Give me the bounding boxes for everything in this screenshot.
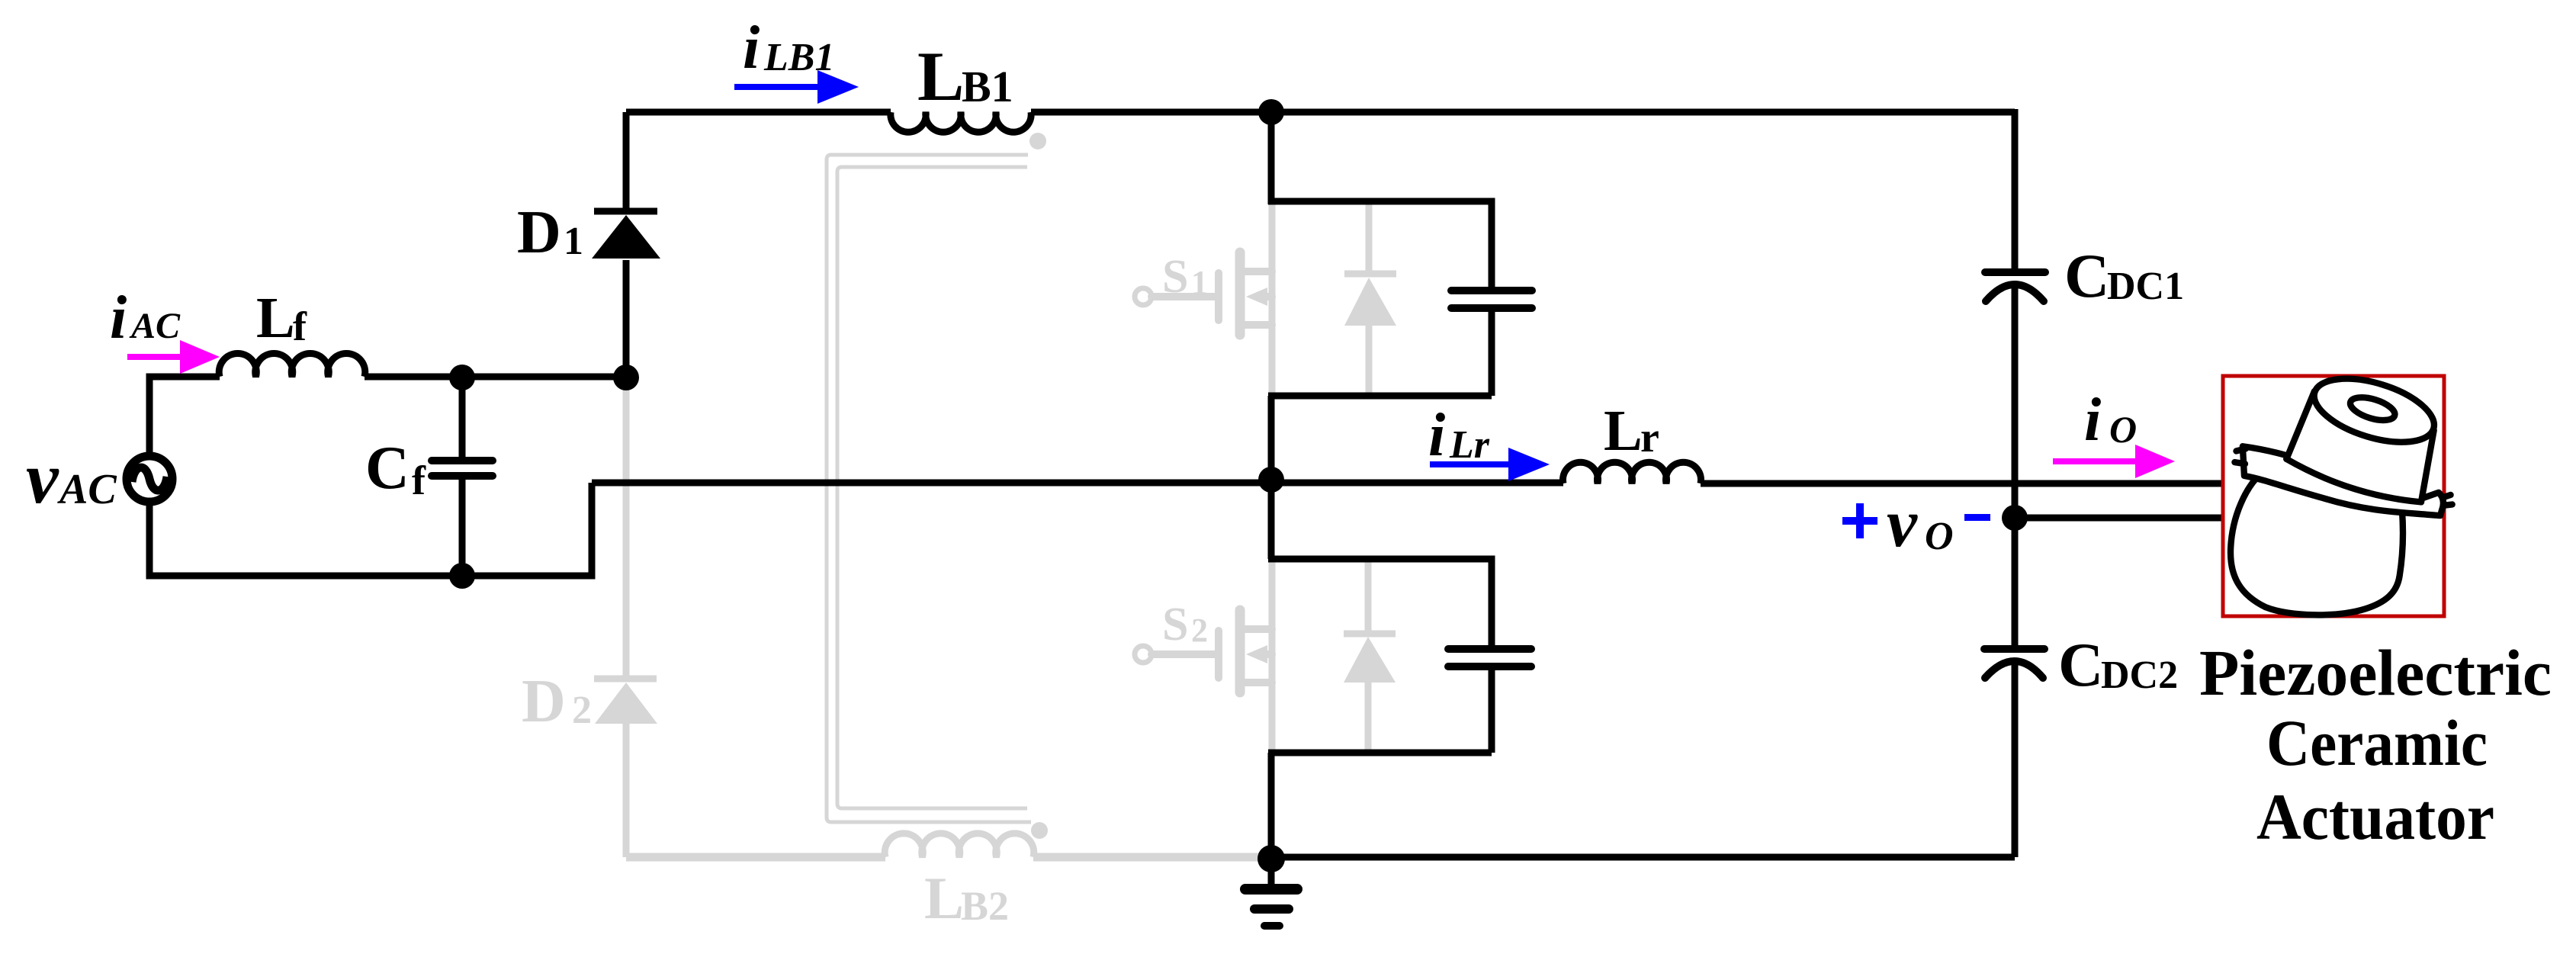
node junction dot Cf top (449, 365, 475, 390)
capacitor CDC2 (1984, 649, 2044, 678)
svg-text:L: L (917, 37, 964, 115)
svg-text:i: i (743, 14, 760, 82)
label Piezoelectric Ceramic Actuator (2199, 636, 2552, 853)
wire coupled-winding link inner (837, 167, 1027, 808)
body diode of S2 (gray) (1344, 562, 1396, 750)
wire input bottom (vAC to mid rail step) (149, 483, 592, 576)
label S2 (1162, 599, 1208, 650)
svg-text:v: v (1887, 486, 1918, 561)
label LB2 (924, 865, 1009, 931)
svg-text:i: i (2084, 387, 2101, 454)
svg-text:Ceramic: Ceramic (2266, 706, 2488, 779)
inductor LB1 (891, 112, 1031, 132)
half-bridge cell 1 outline (1268, 201, 1492, 396)
label D2 (522, 668, 592, 735)
svg-text:S: S (1162, 599, 1188, 650)
wire coupled-winding link outer (827, 155, 1031, 822)
label iLB1 (743, 14, 834, 82)
svg-text:O: O (2109, 408, 2137, 451)
label vAC (26, 437, 117, 519)
current arrow iO (magenta) (2053, 445, 2175, 478)
wire leg upper (1268, 112, 1275, 204)
label LB1 (917, 37, 1013, 115)
label Lf (256, 286, 307, 350)
wire output return to actuator (2015, 515, 2223, 522)
node junction dot ground (1257, 845, 1285, 872)
svg-text:B2: B2 (961, 883, 1009, 929)
wire right rail lower (2012, 660, 2019, 857)
current arrow iLB1 (blue) (734, 70, 859, 104)
svg-text:L: L (924, 865, 964, 931)
wire leg middle (1268, 396, 1275, 559)
svg-text:1: 1 (564, 220, 583, 263)
diode D2 (inactive, gray) (594, 377, 657, 857)
svg-text:v: v (26, 437, 59, 519)
label iO (2084, 387, 2137, 454)
piezoelectric actuator drawing (2231, 366, 2452, 615)
svg-text:f: f (412, 458, 426, 503)
svg-text:AC: AC (129, 306, 181, 346)
svg-text:C: C (2064, 241, 2109, 310)
label D1 (517, 199, 583, 266)
svg-text:i: i (110, 284, 127, 352)
svg-text:Lr: Lr (1449, 423, 1490, 467)
label iLr (1428, 402, 1490, 469)
svg-text:r: r (1640, 414, 1659, 461)
current arrow iLr (blue) (1430, 448, 1550, 481)
svg-text:i: i (1428, 402, 1445, 469)
svg-text:C: C (365, 435, 410, 502)
winding polarity dot LB2 (1031, 822, 1048, 839)
svg-text:B1: B1 (962, 62, 1013, 111)
wire right rail upper (2012, 109, 2019, 269)
wire top rail left (626, 109, 891, 116)
svg-text:DC1: DC1 (2107, 265, 2184, 308)
svg-text:S: S (1162, 251, 1188, 303)
label S1 (1162, 251, 1208, 303)
transistor S2 (inactive, gray MOSFET) (1135, 562, 1272, 750)
svg-text:LB1: LB1 (763, 36, 834, 79)
svg-text:f: f (293, 304, 307, 349)
node junction dot Cf bottom (449, 563, 475, 589)
wire Lr to actuator (1701, 480, 2223, 487)
diode D1 (592, 112, 660, 377)
node junction dot output return (2002, 505, 2028, 531)
svg-text:Actuator: Actuator (2256, 780, 2494, 853)
wire Lf to diode node (365, 374, 626, 381)
current arrow iAC (magenta) (127, 340, 220, 374)
inductor Lf (219, 353, 365, 377)
wire gray bottom rail (D2 to ground node) (626, 853, 1271, 862)
node junction dot D1 anode (613, 365, 639, 390)
svg-text:O: O (1925, 515, 1954, 558)
transistor S1 (inactive, gray MOSFET) (1135, 204, 1272, 393)
svg-text:D: D (522, 668, 566, 735)
capacitor snubber S2 (1448, 649, 1531, 667)
wire leg lower (1268, 753, 1275, 857)
wire mid rail (592, 480, 1563, 487)
svg-text:Piezoelectric: Piezoelectric (2199, 636, 2552, 709)
svg-text:L: L (256, 286, 295, 350)
actuator outline box (red) (2223, 376, 2444, 616)
svg-text:D: D (517, 199, 561, 266)
svg-text:L: L (1604, 399, 1643, 463)
wire input top (vAC to Lf) (149, 377, 220, 458)
svg-text:C: C (2058, 630, 2103, 699)
inductor LB2 (inactive, gray) (885, 834, 1034, 857)
body diode of S1 (gray) (1344, 204, 1396, 393)
label vO with polarity signs (1842, 486, 1990, 561)
svg-text:1: 1 (1191, 264, 1208, 301)
svg-text:AC: AC (57, 466, 117, 513)
label CDC2 (2058, 630, 2178, 699)
node junction dot top rail to leg (1258, 99, 1284, 125)
svg-text:2: 2 (572, 689, 592, 732)
ground symbol (1245, 857, 1297, 926)
wire right rail middle (2012, 284, 2019, 645)
capacitor snubber S1 (1451, 291, 1532, 308)
inductor Lr (1563, 462, 1701, 483)
capacitor Cf (432, 377, 493, 576)
capacitor CDC1 (1985, 272, 2045, 301)
label Lr (1604, 399, 1659, 463)
winding polarity dot LB1 (1029, 133, 1046, 149)
half-bridge cell 2 outline (1268, 559, 1492, 753)
node junction dot half-bridge midpoint (1258, 467, 1284, 493)
ac source vAC (127, 456, 172, 502)
svg-text:2: 2 (1191, 612, 1208, 649)
label Cf (365, 435, 426, 503)
label iAC (110, 284, 181, 352)
svg-text:DC2: DC2 (2101, 654, 2178, 697)
wire bottom rail (1271, 854, 2015, 861)
wire top rail right (1031, 109, 2015, 116)
label CDC1 (2064, 241, 2184, 310)
